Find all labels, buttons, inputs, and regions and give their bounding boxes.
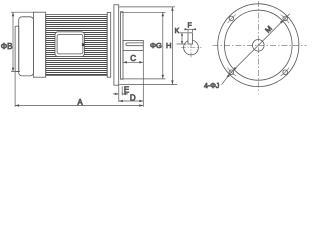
svg-text:ΦB: ΦB — [1, 42, 13, 51]
svg-text:K: K — [175, 28, 180, 35]
center bore circle — [252, 40, 264, 52]
cooling fins — [46, 17, 107, 75]
svg-text:F: F — [188, 23, 192, 30]
shaft end view circle — [184, 40, 199, 55]
rear end bell — [19, 17, 34, 76]
nameplate bolt dot — [82, 43, 84, 46]
bolt hole top-left — [229, 16, 234, 21]
svg-text:4-ΦJ: 4-ΦJ — [204, 83, 219, 90]
fan cowl section — [33, 12, 45, 77]
svg-text:A: A — [77, 98, 83, 107]
svg-text:C: C — [130, 54, 136, 63]
dimension PhiB — [11, 12, 34, 71]
dimension F — [184, 29, 196, 32]
dimension C — [123, 51, 143, 63]
flange plate (side) — [114, 5, 119, 85]
svg-text:H: H — [166, 41, 171, 50]
rear bearing hub stub — [15, 26, 19, 71]
bolt circle arc top-right — [281, 15, 289, 23]
bolt circle arc bottom-left — [228, 68, 236, 76]
key (end view) — [188, 33, 193, 44]
flange spigot circle — [224, 10, 292, 80]
dimension PhiG — [121, 12, 166, 79]
nameplate outer — [55, 32, 84, 57]
bolt circle arc bottom-right — [281, 68, 289, 76]
nameplate inner — [57, 35, 83, 54]
bolt circle arc top-left — [228, 15, 236, 23]
front bracket ring — [107, 13, 111, 78]
flange view centerlines — [213, 1, 307, 94]
dimension E — [113, 86, 128, 95]
dimension H — [119, 7, 177, 85]
stator body outline — [46, 15, 107, 76]
svg-text:M: M — [263, 24, 274, 35]
shaft keyway slot (side) — [126, 43, 143, 46]
bolt hole bottom-left — [229, 70, 234, 75]
shaft — [123, 41, 143, 51]
bolt hole bottom-right — [283, 70, 288, 75]
svg-text:D: D — [130, 93, 136, 102]
bolt hole top-right — [283, 16, 288, 21]
dimension D — [119, 86, 144, 102]
flange outer circle — [218, 4, 299, 87]
shaft end view centerlines — [181, 34, 202, 59]
label 4-PhiJ with leader — [222, 74, 231, 85]
svg-text:ΦG: ΦG — [150, 41, 162, 50]
dimension A — [15, 51, 143, 107]
dimension K — [177, 33, 188, 44]
dimension M (bolt circle PCD) — [227, 14, 290, 77]
svg-text:E: E — [124, 86, 129, 95]
flange spigot hub (side) — [121, 12, 124, 80]
